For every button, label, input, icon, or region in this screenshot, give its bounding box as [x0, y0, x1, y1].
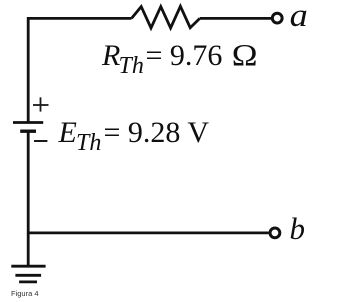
wire: bottom horizontal to terminal b	[28, 231, 268, 234]
svg-text:Figura 4: Figura 4	[11, 289, 39, 298]
battery ETh short negative plate	[20, 129, 36, 132]
terminal b (open circle)	[270, 228, 280, 238]
ground symbol	[11, 266, 45, 282]
svg-text:a: a	[290, 0, 308, 34]
value label RTh = 9.76 ohm	[101, 38, 258, 79]
battery ETh polarity - sign	[34, 140, 47, 142]
svg-text:Th: Th	[76, 130, 101, 156]
value label ETh = 9.28 V	[58, 116, 210, 156]
svg-text:b: b	[290, 211, 306, 246]
svg-text:= 9.28 V: = 9.28 V	[104, 116, 210, 149]
svg-text:R: R	[101, 39, 120, 72]
wire: resistor to terminal a	[200, 17, 272, 20]
battery ETh polarity + sign	[33, 97, 49, 111]
battery ETh long positive plate	[13, 121, 43, 124]
svg-text:= 9.76: = 9.76	[146, 39, 223, 72]
svg-text:Th: Th	[119, 53, 144, 79]
terminal a (open circle)	[272, 13, 282, 23]
svg-text:Ω: Ω	[232, 38, 258, 72]
wire: left vertical + top horizontal to resistor	[28, 18, 131, 122]
resistor RTh	[132, 6, 200, 28]
wire: battery down to ground	[27, 131, 30, 266]
svg-text:E: E	[58, 116, 77, 149]
